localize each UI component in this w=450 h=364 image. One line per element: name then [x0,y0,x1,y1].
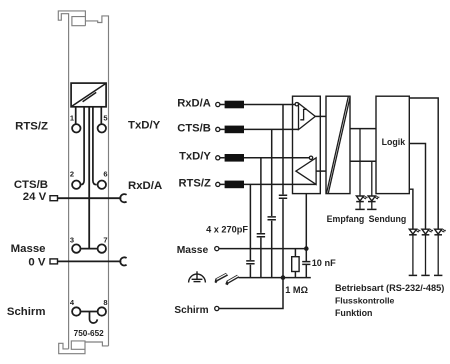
capacitor C1 270pF [246,261,254,264]
isolation diagonal 2 [328,98,350,194]
svg-text:0 V: 0 V [28,256,45,268]
24V feed square [50,196,58,201]
DIN rail icon [215,273,240,285]
svg-text:Betriebsart (RS-232/-485): Betriebsart (RS-232/-485) [335,283,444,293]
LED Sendung riser [371,161,373,196]
0V feed square [50,259,58,264]
svg-text:10 nF: 10 nF [312,258,336,268]
terminal circle TxD/Y [216,156,220,160]
terminal circle RxD/A [216,102,220,106]
wire box to contact 5 [100,107,102,124]
wire R5 bottom [294,272,296,278]
contact 4 [72,307,80,315]
wire Logik to LED Betriebsart [409,98,438,229]
shield bus wire [239,277,311,279]
24V power line [58,197,122,199]
svg-text:3: 3 [70,235,74,244]
center wire box to contact row 3/7 [88,107,90,249]
Logik box [376,96,409,193]
svg-text:Schirm: Schirm [7,306,46,318]
wire box to contact 1 [75,107,77,124]
receiver output wire [315,115,326,117]
isolation box [326,96,350,193]
driver input circle [309,156,312,159]
svg-text:1 MΩ: 1 MΩ [285,285,308,295]
resistor R4 RTS/Z [225,181,244,189]
wire TxD/Y row [220,157,309,159]
driver amplifier [296,158,316,185]
wire isolation to Logik lower [350,160,376,162]
converter box second diagonal [83,92,97,101]
transceiver box U2 [293,96,321,193]
LED Funktion [409,229,421,275]
wire box to contact 6 [93,107,97,185]
svg-text:CTS/B: CTS/B [177,122,211,134]
capacitor C2 270pF [257,234,265,237]
driver output wire [316,170,326,172]
terminal circle CTS/B [216,127,220,131]
capacitor C4 270pF [279,195,287,198]
0V power line [58,260,122,262]
contact 1 [72,124,80,132]
wire Logik to LED Flusskontrolle [409,144,425,230]
wire transceiver box to Masse node [305,194,307,261]
wire isolation to Logik upper [350,128,376,130]
converter box U1 [71,83,106,107]
LED Flusskontrolle [421,229,433,275]
svg-text:Empfang: Empfang [327,214,365,224]
receiver input circle [295,103,298,106]
module outline bottom foot [59,341,109,354]
converter box diagonal [72,84,106,107]
svg-text:Schirm: Schirm [174,305,208,316]
LED Sendung [367,196,379,209]
terminal circle Schirm [215,306,219,310]
hysteresis symbol [300,109,307,119]
node dot Masse/shield [304,246,309,251]
svg-text:2: 2 [70,170,74,179]
resistor R1 RxD/A [225,101,244,109]
branch wire from RTS/Z row [249,184,251,277]
svg-text:5: 5 [103,113,107,122]
svg-text:4: 4 [70,298,75,307]
terminal circle Masse [215,247,219,251]
Schirm wire [219,278,283,309]
resistor R2 CTS/B [225,126,244,134]
svg-text:RTS/Z: RTS/Z [178,177,210,189]
svg-text:Masse: Masse [11,243,46,255]
capacitor C3 270pF [268,217,276,220]
svg-text:TxD/Y: TxD/Y [128,120,161,132]
wire box to contact 2 [80,107,84,185]
0V line end arc [120,257,126,265]
contact 7 [98,244,106,252]
wire C5 to shield bus [305,264,307,277]
svg-text:24 V: 24 V [23,191,47,203]
branch wire from RxD/A row [282,105,284,278]
branch wire from TxD/Y row [260,158,262,278]
LED Empfang riser [359,129,361,196]
wire RxD/A row [220,104,295,106]
shield spring hook [90,312,98,324]
svg-text:7: 7 [103,235,107,244]
svg-text:RTS/Z: RTS/Z [15,120,48,132]
capacitor C5 10nF [302,262,310,265]
svg-text:RxD/A: RxD/A [177,97,211,109]
isolation diagonal 1 [327,97,349,193]
contact 6 [98,181,106,189]
LED Empfang [355,196,367,209]
svg-text:1: 1 [70,113,74,122]
svg-text:Flusskontrolle: Flusskontrolle [335,296,395,306]
resistor R3 TxD/Y [225,154,244,162]
svg-text:Masse: Masse [177,245,209,256]
svg-text:4 x 270pF: 4 x 270pF [206,224,248,234]
terminal circle RTS/Z [216,182,220,186]
module outline top claw [58,11,108,349]
functional earth symbol [189,271,206,282]
svg-text:Logik: Logik [382,137,406,147]
svg-text:6: 6 [103,170,107,179]
svg-text:Sendung: Sendung [369,214,407,224]
branch wire from CTS/B row [271,129,273,277]
svg-text:8: 8 [103,298,107,307]
24V line end arc [120,194,126,202]
Masse wire [219,248,306,250]
svg-text:CTS/B: CTS/B [14,179,48,191]
contact 3 [72,244,80,252]
receiver comparator [299,103,316,129]
wire contact 4 to 8 [81,311,98,313]
resistor R5 1 MOhm [292,257,299,272]
wire RTS/Z row [220,183,316,185]
contact 8 [98,307,106,315]
node dot shield bus [281,275,286,280]
svg-text:RxD/A: RxD/A [128,180,162,192]
wire R5 top [294,249,296,257]
LED Betriebsart [434,229,446,275]
contact 5 [98,124,106,132]
wire CTS/B row [220,128,299,130]
svg-text:Funktion: Funktion [335,308,372,318]
contact 2 [72,181,80,189]
wire Logik to LED Funktion [409,189,413,229]
wire contact 3 to 7 [81,248,98,250]
svg-text:TxD/Y: TxD/Y [179,151,211,163]
svg-text:750-652: 750-652 [74,329,104,338]
